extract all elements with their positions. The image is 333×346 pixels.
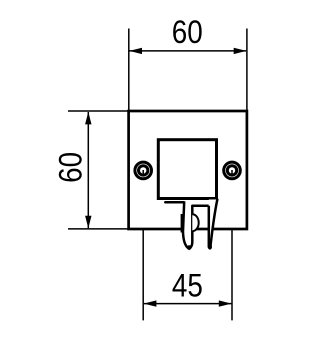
node left dimension arrow down	[85, 216, 91, 229]
screw S2 right: white backing	[222, 161, 242, 181]
wire top dimension line	[130, 50, 247, 52]
node bottom dimension arrow left	[144, 300, 157, 306]
node right prong fill	[209, 200, 218, 249]
svg-text:60: 60	[53, 152, 89, 183]
screw S1 left: inner ring	[139, 166, 148, 175]
screw S2 right: center tick	[231, 170, 233, 174]
screw S1 left: white backing	[133, 161, 153, 181]
wire left extension line bottom	[68, 228, 129, 230]
node bottom dimension arrow right	[219, 300, 232, 306]
node top dimension arrow left	[129, 48, 142, 54]
screw S2 right: inner ring	[227, 166, 236, 175]
node right prong tip blob	[208, 244, 212, 249]
wire bottom dimension line	[144, 303, 232, 305]
node left prong tip blob	[187, 245, 191, 250]
node left prong thick edge	[181, 214, 183, 233]
svg-text:45: 45	[172, 267, 203, 303]
node left prong fill	[183, 201, 192, 249]
wire top extension line right	[246, 29, 248, 112]
wire bottom extension line right	[231, 170, 233, 320]
wire bottom extension line left	[142, 170, 144, 320]
screw S2 right: outer ring	[224, 162, 241, 179]
node top dimension arrow right	[234, 48, 247, 54]
block: holder body square	[158, 140, 216, 199]
screw S1 left: center tick	[142, 170, 144, 174]
screw S1 left: outer ring	[135, 162, 152, 179]
wire top extension line left	[128, 29, 130, 112]
wire left extension line top	[68, 110, 129, 112]
node left dimension arrow up	[85, 112, 91, 125]
plate: wall plate outline 60x60	[129, 111, 247, 229]
node right prong inner edge	[209, 206, 210, 249]
node bump detent	[192, 214, 198, 231]
node left prong outline	[183, 202, 209, 249]
node right prong outer edge	[210, 200, 217, 249]
wire left dimension line	[87, 112, 89, 228]
svg-text:60: 60	[172, 14, 203, 50]
node ledge below block	[165, 201, 184, 204]
